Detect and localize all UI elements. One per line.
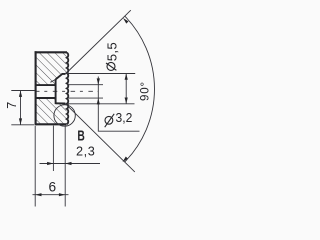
90 deg arc <box>125 16 155 162</box>
part bottom edge <box>35 123 67 125</box>
dim phi5,5: extension top <box>67 73 135 75</box>
dim phi3,2: dimension line vertical with text leader <box>98 77 139 132</box>
dim phi3,2: arrow up (outside below) <box>97 98 100 104</box>
svg-text:3,2: 3,2 <box>116 110 133 125</box>
dim phi3,2: extension top (hole top extended) <box>67 84 103 86</box>
dim phi3,2: extension bottom (hole bottom extended) <box>68 97 103 99</box>
countersink bottom face <box>56 102 66 104</box>
dim 2,3: extension line left (step) <box>52 126 54 171</box>
svg-text:2,3: 2,3 <box>76 145 95 159</box>
dim 6: dimension line <box>33 194 69 196</box>
dim 7: dimension line <box>20 91 22 125</box>
dim phi5,5: extension bottom <box>68 103 135 105</box>
label phi5,5 <box>106 62 116 70</box>
90 deg upper ray <box>65 10 130 74</box>
countersink top chamfer <box>50 79 56 82</box>
part left edge <box>35 51 37 125</box>
dim 2,3 and dim 6 shared right extension line (surface) <box>64 126 66 207</box>
dim 2,3: dimension line <box>40 163 101 165</box>
part top edge <box>35 51 67 53</box>
dim phi5,5: arrow down <box>125 98 128 104</box>
dim 7: extension line top (axis) <box>11 90 35 92</box>
dim 7: arrow down <box>19 118 22 124</box>
centerline hole axis <box>35 90 99 92</box>
break edge wavy right side <box>67 53 68 125</box>
label phi3,2 <box>105 114 115 127</box>
dim 7: arrow up <box>19 91 22 97</box>
90 deg lower ray <box>65 104 134 172</box>
dim 2,3: arrow left outside-right <box>65 162 71 165</box>
dim phi5,5: dimension line <box>125 74 127 104</box>
dim 6: extension left <box>34 126 36 207</box>
hatch top block <box>36 52 67 85</box>
hatch bottom block <box>36 98 67 124</box>
countersink step vertical <box>55 79 57 104</box>
dim 2,3: arrow right outside-left <box>47 162 53 165</box>
svg-text:7: 7 <box>5 102 19 109</box>
svg-text:6: 6 <box>49 179 57 194</box>
dim 6: arrow right <box>59 193 65 196</box>
detail circle B <box>54 105 75 126</box>
dim phi3,2: arrow down (outside above) <box>97 78 100 84</box>
hole top line <box>36 84 56 86</box>
svg-text:90°: 90° <box>140 81 152 101</box>
svg-text:B: B <box>77 128 84 144</box>
arc arrowhead bottom <box>123 157 129 163</box>
dim 6: arrow left <box>35 193 41 196</box>
dim 7: extension line bottom <box>11 124 34 126</box>
svg-text:5,5: 5,5 <box>105 42 120 61</box>
arc arrowhead top <box>123 18 129 24</box>
hole bottom line <box>36 97 56 99</box>
dim phi5,5: arrow up <box>125 74 128 80</box>
